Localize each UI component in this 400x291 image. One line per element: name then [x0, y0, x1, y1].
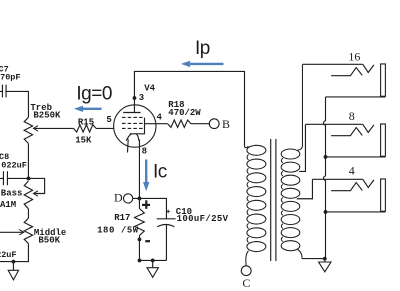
svg-text:A1M: A1M [0, 200, 16, 210]
svg-text:V4: V4 [144, 84, 155, 94]
svg-text:16: 16 [348, 50, 360, 64]
svg-text:Ig=0: Ig=0 [76, 83, 112, 104]
svg-text:4: 4 [349, 163, 355, 177]
svg-text:R15: R15 [78, 117, 94, 127]
svg-text:Ic: Ic [153, 162, 167, 183]
svg-text:B250K: B250K [33, 111, 61, 121]
svg-text:8: 8 [349, 109, 355, 123]
svg-text:22uF: 22uF [0, 250, 17, 260]
svg-text:C: C [242, 276, 250, 290]
svg-text:B50K: B50K [38, 236, 60, 246]
svg-text:470pF: 470pF [0, 73, 21, 83]
svg-text:.022uF: .022uF [0, 160, 27, 170]
svg-text:180 /5W: 180 /5W [97, 226, 139, 236]
svg-text:D: D [114, 191, 123, 205]
svg-text:4: 4 [157, 112, 163, 122]
svg-text:3: 3 [139, 93, 144, 103]
svg-text:R17: R17 [114, 213, 130, 223]
svg-text:8: 8 [142, 146, 147, 156]
svg-text:5: 5 [106, 115, 111, 125]
svg-text:B: B [222, 117, 230, 131]
svg-text:Ip: Ip [195, 38, 210, 59]
svg-text:470/2W: 470/2W [168, 108, 201, 118]
svg-text:100uF/25V: 100uF/25V [177, 214, 229, 224]
svg-text:Bass: Bass [1, 189, 23, 199]
svg-text:15K: 15K [75, 135, 92, 145]
